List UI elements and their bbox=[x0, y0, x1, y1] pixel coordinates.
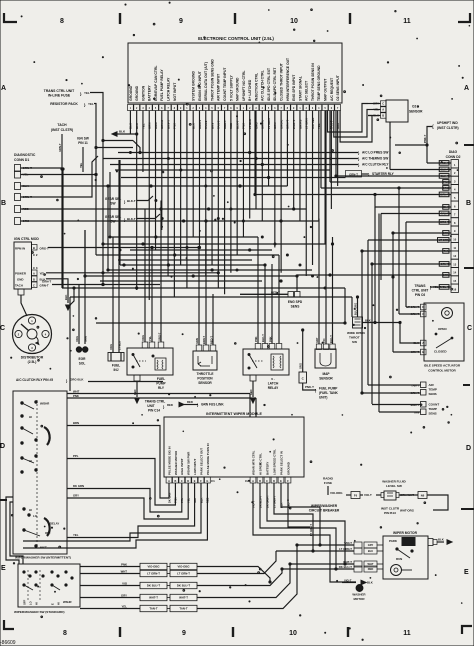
relay top pins bbox=[142, 342, 148, 348]
tps wires bbox=[198, 248, 200, 346]
svg-text:B: B bbox=[1, 200, 6, 207]
svg-text:BLK: BLK bbox=[367, 581, 373, 585]
svg-text:WHT-T: WHT-T bbox=[179, 596, 188, 600]
svg-text:PARK SELECT IN: PARK SELECT IN bbox=[279, 451, 283, 475]
svg-text:WIPER/WASHER SW (STANDARD): WIPER/WASHER SW (STANDARD) bbox=[14, 610, 64, 614]
coolant temp wires bbox=[372, 404, 421, 406]
svg-text:THROT POSIN SENS GND: THROT POSIN SENS GND bbox=[210, 59, 214, 101]
svg-text:ORG-T: ORG-T bbox=[40, 247, 50, 251]
svg-text:CLOSED: CLOSED bbox=[434, 350, 447, 354]
svg-text:B: B bbox=[422, 350, 424, 354]
relay bottom pin bbox=[134, 375, 140, 381]
relay contact bbox=[132, 354, 134, 356]
svg-text:LEVEL SW: LEVEL SW bbox=[386, 484, 402, 488]
svg-text:-86609: -86609 bbox=[0, 640, 16, 646]
svg-text:RED: RED bbox=[187, 400, 193, 404]
svg-text:C: C bbox=[266, 480, 268, 483]
svg-text:6 -: 6 - bbox=[271, 377, 275, 381]
svg-text:B: B bbox=[259, 480, 261, 483]
svg-text:AIR TEMP INPUT: AIR TEMP INPUT bbox=[217, 73, 221, 101]
svg-text:W/SHR: W/SHR bbox=[40, 402, 49, 406]
svg-text:LOW SPEED CTRL: LOW SPEED CTRL bbox=[272, 449, 276, 475]
svg-text:NOT INPUT: NOT INPUT bbox=[173, 82, 177, 101]
svg-text:DK GRN: DK GRN bbox=[73, 484, 84, 488]
svg-text:A: A bbox=[33, 272, 35, 276]
svg-text:B: B bbox=[33, 278, 35, 282]
wire drops from ECU pins bbox=[129, 111, 131, 135]
svg-text:GRN FUS LINK: GRN FUS LINK bbox=[201, 403, 224, 407]
svg-text:C: C bbox=[382, 102, 384, 106]
svg-text:GRN-T: GRN-T bbox=[40, 284, 49, 288]
jumpers between strips bbox=[167, 566, 170, 568]
svg-text:PIN B13: PIN B13 bbox=[384, 511, 396, 515]
svg-text:RED: RED bbox=[133, 389, 137, 395]
latch relay coil bbox=[271, 354, 283, 370]
svg-text:INJECTION CTRL: INJECTION CTRL bbox=[254, 73, 258, 101]
svg-text:BATTERY: BATTERY bbox=[265, 462, 269, 475]
svg-text:WSHR MTR CTRL: WSHR MTR CTRL bbox=[251, 450, 255, 475]
svg-text:D: D bbox=[466, 445, 471, 452]
svg-text:INTERMITTENT WIPER MODULE: INTERMITTENT WIPER MODULE bbox=[206, 412, 262, 416]
svg-text:A: A bbox=[252, 480, 254, 483]
svg-text:(INST CLSTR): (INST CLSTR) bbox=[437, 126, 459, 130]
actuator pins bbox=[421, 304, 427, 310]
svg-text:G: G bbox=[206, 480, 208, 483]
svg-text:PNK: PNK bbox=[254, 336, 258, 342]
svg-text:11: 11 bbox=[403, 18, 411, 25]
svg-text:THROT: THROT bbox=[349, 336, 360, 340]
svg-text:DK BLU-T: DK BLU-T bbox=[339, 565, 352, 569]
svg-text:INST CLSTR: INST CLSTR bbox=[381, 507, 400, 511]
svg-text:BLK-T: BLK-T bbox=[127, 199, 136, 203]
svg-text:TRANS: TRANS bbox=[415, 284, 426, 288]
svg-text:A: A bbox=[422, 341, 424, 345]
svg-text:TRANS CTRL UNIT: TRANS CTRL UNIT bbox=[44, 89, 75, 93]
coolant temp sensor bbox=[421, 402, 427, 408]
svg-text:FUSE: FUSE bbox=[324, 481, 332, 485]
svg-text:HI: HI bbox=[35, 602, 39, 605]
svg-text:HI: HI bbox=[29, 508, 32, 512]
fuel pump wire bbox=[303, 383, 316, 390]
svg-text:BLK: BLK bbox=[119, 130, 126, 134]
svg-text:A/C LO PRES SW: A/C LO PRES SW bbox=[362, 151, 388, 155]
inst clstr pin b13 bbox=[427, 495, 448, 510]
map pins bbox=[316, 344, 321, 350]
wide open throttle switch bbox=[353, 317, 363, 328]
svg-text:OFF: OFF bbox=[45, 531, 51, 535]
svg-text:PNK-T: PNK-T bbox=[423, 134, 427, 143]
svg-text:A/C SELECT: A/C SELECT bbox=[305, 80, 309, 101]
svg-text:RPM IN: RPM IN bbox=[15, 247, 25, 251]
top-left corner bracket bbox=[4, 13, 17, 22]
svg-text:THROT POSIN SENS IN: THROT POSIN SENS IN bbox=[311, 63, 315, 101]
outer loop wires bbox=[6, 497, 19, 564]
left edge dash bbox=[0, 499, 7, 501]
svg-text:GRN: GRN bbox=[195, 338, 199, 344]
svg-text:PIN C14: PIN C14 bbox=[148, 409, 160, 413]
svg-text:YEL: YEL bbox=[73, 533, 79, 537]
svg-text:TACH: TACH bbox=[57, 123, 67, 127]
intermittent wiper module box bbox=[164, 417, 304, 477]
svg-text:SENSOR: SENSOR bbox=[198, 381, 212, 385]
svg-text:IDLE SPD CTRL RET: IDLE SPD CTRL RET bbox=[273, 67, 277, 101]
svg-text:STARTER RLY: STARTER RLY bbox=[372, 172, 395, 176]
A/C CLUTCH RLY bbox=[110, 164, 358, 166]
svg-text:BLU: BLU bbox=[368, 549, 373, 553]
svg-text:FUEL PUMP: FUEL PUMP bbox=[319, 387, 338, 391]
svg-text:MAP GROUND: MAP GROUND bbox=[236, 77, 240, 101]
svg-text:PIN 11: PIN 11 bbox=[78, 141, 88, 145]
svg-text:C: C bbox=[33, 284, 35, 288]
svg-text:LT BLU: LT BLU bbox=[118, 341, 122, 350]
fuel pump relay box bbox=[127, 348, 173, 375]
svg-text:LOW INPUT: LOW INPUT bbox=[193, 459, 197, 475]
GRN-T inline label bbox=[346, 171, 362, 178]
ign sw wire bbox=[82, 147, 84, 172]
svg-text:IGNITION: IGNITION bbox=[141, 85, 145, 101]
wire from in-line fuse bbox=[90, 93, 103, 285]
svg-text:LT GRN-T: LT GRN-T bbox=[147, 572, 160, 576]
svg-text:LT GRN-T: LT GRN-T bbox=[309, 524, 313, 536]
svg-text:O2 SENS INPUT: O2 SENS INPUT bbox=[336, 74, 340, 101]
svg-text:E: E bbox=[1, 565, 6, 572]
svg-text:THROTTLE: THROTTLE bbox=[197, 372, 214, 376]
wire from resistor pack bbox=[94, 104, 96, 256]
svg-text:WASHER MOTOR: WASHER MOTOR bbox=[174, 450, 178, 475]
svg-text:D: D bbox=[0, 443, 5, 450]
svg-text:MOTOR: MOTOR bbox=[353, 597, 365, 601]
bottom-right corner bracket bbox=[462, 626, 472, 634]
latch relay box bbox=[243, 349, 289, 375]
svg-text:B: B bbox=[33, 246, 35, 250]
bottom-left corner bracket bbox=[4, 620, 14, 629]
svg-text:LT GRN-T: LT GRN-T bbox=[177, 572, 190, 576]
svg-text:LATCH RELAY: LATCH RELAY bbox=[166, 77, 170, 101]
svg-text:IDLE SPEED ACTUATOR: IDLE SPEED ACTUATOR bbox=[424, 364, 461, 368]
svg-text:TEMP SENS GROUND: TEMP SENS GROUND bbox=[317, 65, 321, 101]
MAP sensor box bbox=[315, 349, 336, 368]
bottom ruler ticks bbox=[119, 627, 121, 637]
svg-text:SW: SW bbox=[352, 340, 357, 344]
EGR wires bbox=[78, 285, 80, 345]
svg-text:SERIAL DATA OUT (A/T): SERIAL DATA OUT (A/T) bbox=[204, 62, 208, 101]
svg-text:BLK: BLK bbox=[64, 295, 68, 300]
svg-text:WSHR: WSHR bbox=[63, 600, 72, 604]
svg-text:ORG: ORG bbox=[141, 335, 145, 341]
svg-text:YEL: YEL bbox=[84, 91, 90, 95]
latch relay top wires bbox=[257, 237, 259, 344]
svg-text:FUEL: FUEL bbox=[157, 377, 165, 381]
svg-text:A/C CLUTCH RLY: A/C CLUTCH RLY bbox=[362, 163, 389, 167]
svg-text:O2: O2 bbox=[412, 105, 416, 109]
svg-text:VIO-T: VIO-T bbox=[344, 579, 352, 583]
bend runs below ECU left corner bbox=[103, 140, 133, 142]
svg-text:DELAY: DELAY bbox=[50, 522, 59, 526]
wht/pnk wires bbox=[67, 393, 250, 395]
svg-text:PARK: PARK bbox=[389, 539, 398, 543]
svg-text:VIO-OBG: VIO-OBG bbox=[177, 565, 189, 569]
module C1 pin boxes bbox=[166, 477, 172, 483]
svg-text:(2.5L): (2.5L) bbox=[28, 360, 37, 364]
svg-text:FUEL PUMP RELAY: FUEL PUMP RELAY bbox=[160, 69, 164, 101]
svg-text:BLK: BLK bbox=[365, 319, 371, 323]
svg-text:UPSHIFT NO CTRL: UPSHIFT NO CTRL bbox=[242, 70, 246, 101]
svg-text:UPSHIFT IND: UPSHIFT IND bbox=[437, 121, 458, 125]
svg-text:RESISTOR PACK: RESISTOR PACK bbox=[50, 102, 78, 106]
ECU pin number row bbox=[128, 105, 134, 111]
fuel inj wires bbox=[112, 237, 114, 353]
svg-text:SENSOR: SENSOR bbox=[319, 377, 333, 381]
svg-text:A/C THERMO SW: A/C THERMO SW bbox=[362, 157, 388, 161]
svg-text:B: B bbox=[382, 114, 384, 118]
distributor circle bbox=[13, 315, 52, 354]
svg-text:WIDE OPEN: WIDE OPEN bbox=[347, 331, 365, 335]
motor output stub bbox=[428, 539, 433, 546]
svg-text:DISTRIBUTOR: DISTRIBUTOR bbox=[21, 356, 44, 360]
svg-text:MAP OUTPUT: MAP OUTPUT bbox=[323, 78, 327, 101]
ign ctrl mod box bbox=[14, 242, 32, 289]
svg-text:ORG: ORG bbox=[109, 344, 113, 350]
svg-text:CLOSED THROT INPUT: CLOSED THROT INPUT bbox=[280, 62, 284, 101]
STARTER RLY bbox=[121, 177, 346, 179]
svg-text:B+ LATCHED: B+ LATCHED bbox=[248, 79, 252, 101]
svg-text:RELAY: RELAY bbox=[268, 386, 279, 390]
svg-text:RLY: RLY bbox=[158, 386, 165, 390]
svg-text:GRY: GRY bbox=[368, 543, 374, 547]
scan noise bbox=[154, 98, 155, 99]
strip output wires bbox=[197, 567, 270, 583]
svg-text:RADIO: RADIO bbox=[323, 477, 334, 481]
svg-text:D: D bbox=[273, 480, 275, 483]
svg-text:OFF: OFF bbox=[23, 599, 27, 605]
rotor arrow bbox=[36, 337, 38, 342]
svg-text:YEL: YEL bbox=[79, 162, 83, 168]
svg-text:8: 8 bbox=[60, 18, 64, 25]
svg-text:TACH: TACH bbox=[15, 284, 23, 288]
svg-text:5 VOLT SUPPLY: 5 VOLT SUPPLY bbox=[229, 74, 233, 101]
svg-text:DIAG: DIAG bbox=[449, 150, 458, 154]
svg-text:HI: HI bbox=[29, 459, 32, 463]
top-right corner bracket bbox=[458, 13, 470, 22]
svg-text:RED: RED bbox=[167, 403, 173, 407]
svg-text:GRY: GRY bbox=[315, 337, 319, 343]
std sw internal feeds bbox=[80, 568, 86, 570]
svg-text:GRN-T: GRN-T bbox=[42, 280, 51, 284]
svg-text:POSITION: POSITION bbox=[197, 377, 213, 381]
bundle horizontal runs bbox=[115, 169, 330, 171]
svg-text:WSH/W SW PWR: WSH/W SW PWR bbox=[187, 451, 191, 475]
svg-text:OPEN: OPEN bbox=[438, 327, 447, 331]
svg-text:WHT-T: WHT-T bbox=[149, 596, 158, 600]
fuel injector bbox=[108, 353, 124, 362]
BLK splice arrow bbox=[112, 132, 117, 136]
svg-text:WASHER FLUID: WASHER FLUID bbox=[382, 480, 406, 484]
tps top pins bbox=[196, 345, 202, 351]
A/C LO PRES SW bbox=[118, 152, 358, 154]
ground arrow ign mod bbox=[66, 305, 71, 310]
wiper motor box bbox=[383, 536, 428, 579]
svg-text:MAP: MAP bbox=[322, 372, 330, 376]
junction dots in bundle bbox=[129, 152, 131, 154]
svg-text:C: C bbox=[467, 325, 472, 332]
svg-text:BLK-T: BLK-T bbox=[127, 217, 136, 221]
o2 to diag wire bbox=[395, 144, 427, 146]
svg-text:VIO-OBG: VIO-OBG bbox=[147, 565, 159, 569]
svg-text:(INST CLSTR): (INST CLSTR) bbox=[51, 128, 73, 132]
svg-text:GROUND: GROUND bbox=[129, 85, 133, 101]
svg-text:A: A bbox=[382, 108, 384, 112]
svg-text:HRM INTERFERENCE OUT: HRM INTERFERENCE OUT bbox=[286, 57, 290, 101]
svg-text:C: C bbox=[422, 312, 424, 316]
svg-text:FUEL: FUEL bbox=[112, 364, 120, 368]
svg-text:PULSE MODE SIG IN: PULSE MODE SIG IN bbox=[167, 446, 171, 475]
svg-text:GROUND: GROUND bbox=[286, 462, 290, 475]
svg-text:PARK SELECT OUT: PARK SELECT OUT bbox=[199, 448, 203, 475]
radio fuse wires bbox=[327, 486, 329, 495]
svg-text:RED: RED bbox=[368, 567, 374, 571]
svg-text:LATCH: LATCH bbox=[268, 382, 279, 386]
svg-text:IGN SW: IGN SW bbox=[77, 137, 89, 141]
red drop arrows bbox=[135, 398, 140, 403]
module ground drop bbox=[288, 483, 310, 527]
connector C bbox=[299, 372, 307, 383]
actuator motor circle bbox=[442, 308, 453, 319]
svg-text:SENSOR: SENSOR bbox=[409, 110, 423, 114]
svg-text:IN-LINE FUSE: IN-LINE FUSE bbox=[48, 94, 71, 98]
relay top wires bbox=[144, 209, 146, 342]
air temp wires bbox=[368, 384, 421, 386]
svg-text:START SIGNAL: START SIGNAL bbox=[298, 76, 302, 101]
svg-text:EGR/EVAP CAN CTRL: EGR/EVAP CAN CTRL bbox=[154, 66, 158, 101]
svg-text:BATTERY: BATTERY bbox=[148, 85, 152, 101]
svg-text:A: A bbox=[464, 85, 469, 92]
connector strip left bbox=[140, 563, 167, 569]
svg-text:ORG-BLK: ORG-BLK bbox=[70, 378, 84, 382]
svg-text:TEMP: TEMP bbox=[429, 388, 437, 392]
svg-text:WIPER/WASHER: WIPER/WASHER bbox=[311, 504, 338, 508]
bundle right verticals bbox=[344, 288, 346, 323]
svg-text:B: B bbox=[174, 480, 176, 483]
svg-text:HI: HI bbox=[29, 415, 32, 419]
svg-text:GRN: GRN bbox=[84, 336, 88, 342]
map wires bbox=[318, 219, 320, 345]
svg-text:DIAGNOSTIC: DIAGNOSTIC bbox=[14, 153, 36, 157]
svg-text:TEMP: TEMP bbox=[429, 407, 437, 411]
svg-text:WHT: WHT bbox=[368, 562, 374, 566]
svg-text:CTRL UNIT: CTRL UNIT bbox=[412, 289, 429, 293]
svg-text:BLK-T: BLK-T bbox=[261, 334, 265, 342]
svg-text:ELECTRONIC CONTROL UNIT (2.5L): ELECTRONIC CONTROL UNIT (2.5L) bbox=[198, 36, 274, 41]
diag conn D1 pin boxes bbox=[15, 165, 21, 172]
svg-text:POWER: POWER bbox=[15, 272, 27, 276]
svg-text:DK BLU-T: DK BLU-T bbox=[147, 584, 160, 588]
svg-text:AIR: AIR bbox=[429, 383, 435, 387]
svg-text:A: A bbox=[168, 480, 170, 483]
wiper/washer sw standard box bbox=[18, 564, 80, 607]
svg-text:C 2: C 2 bbox=[33, 253, 38, 257]
svg-text:BLK: BLK bbox=[413, 341, 419, 345]
svg-text:11: 11 bbox=[403, 630, 411, 637]
svg-text:ORG: ORG bbox=[299, 363, 303, 369]
svg-text:WHT-T: WHT-T bbox=[343, 560, 352, 564]
svg-text:TRANS CTRL: TRANS CTRL bbox=[145, 400, 165, 404]
svg-text:C: C bbox=[181, 480, 183, 483]
svg-text:E: E bbox=[51, 603, 55, 605]
latch relay top pins bbox=[255, 344, 261, 350]
diag conn D2 pin boxes bbox=[451, 160, 459, 168]
upshift wire bbox=[427, 127, 432, 164]
svg-text:WASHER: WASHER bbox=[352, 593, 366, 597]
wiper/washer sw intermittent box bbox=[13, 391, 67, 554]
svg-text:ORG: ORG bbox=[75, 336, 79, 342]
motor connector strips bbox=[354, 542, 362, 548]
svg-text:CIRCUIT BREAKER: CIRCUIT BREAKER bbox=[309, 509, 340, 513]
svg-text:DK BLU-T: DK BLU-T bbox=[177, 584, 190, 588]
svg-text:BRN: BRN bbox=[73, 421, 79, 425]
svg-text:TAN-T: TAN-T bbox=[149, 607, 157, 611]
extra module pin wires bbox=[23, 483, 201, 541]
switch contacts mid bbox=[21, 457, 23, 459]
svg-text:10: 10 bbox=[289, 630, 297, 637]
svg-text:TAN-T: TAN-T bbox=[344, 541, 352, 545]
svg-text:CONN D1: CONN D1 bbox=[14, 158, 29, 162]
engine speed sensor bbox=[288, 292, 294, 298]
svg-text:WHT-ORG: WHT-ORG bbox=[400, 509, 415, 513]
svg-text:RUN: RUN bbox=[396, 557, 402, 561]
connector strip right bbox=[170, 563, 197, 569]
svg-text:BRN-T: BRN-T bbox=[202, 336, 206, 344]
svg-text:10: 10 bbox=[290, 18, 298, 25]
svg-text:VIO-T: VIO-T bbox=[364, 493, 372, 497]
svg-text:YEL: YEL bbox=[88, 102, 94, 106]
svg-text:ENG SPD: ENG SPD bbox=[288, 300, 303, 304]
svg-text:PUMP: PUMP bbox=[156, 382, 166, 386]
latch relay bottom pin bbox=[250, 375, 256, 381]
wot wire to actuator bbox=[363, 323, 422, 344]
O2 wires from ECU bbox=[328, 104, 369, 133]
svg-text:D: D bbox=[187, 480, 189, 483]
svg-text:VIO-ORG: VIO-ORG bbox=[330, 491, 343, 495]
svg-text:BLK: BLK bbox=[438, 538, 444, 542]
module C2 drop wires bbox=[253, 483, 356, 582]
svg-text:GND: GND bbox=[17, 278, 23, 282]
svg-text:COUNT: COUNT bbox=[429, 403, 440, 407]
motor feed horizontals bbox=[297, 544, 320, 546]
d2 wires bbox=[427, 162, 451, 164]
svg-text:SENS: SENS bbox=[429, 392, 437, 396]
svg-text:UNIT: UNIT bbox=[147, 404, 154, 408]
top ruler ticks bbox=[119, 13, 121, 24]
svg-text:A: A bbox=[1, 85, 6, 92]
svg-text:B: B bbox=[466, 200, 471, 207]
svg-text:F6: F6 bbox=[354, 494, 358, 498]
gear sel wire 2 bbox=[137, 214, 160, 219]
svg-text:PNK: PNK bbox=[73, 394, 79, 398]
stub to distributor bbox=[18, 289, 24, 295]
right edge dashes bbox=[464, 144, 474, 146]
svg-text:D: D bbox=[422, 305, 424, 309]
svg-text:ENG SPD INPUT: ENG SPD INPUT bbox=[292, 74, 296, 101]
svg-text:WHT: WHT bbox=[73, 390, 80, 394]
tach wire bbox=[61, 134, 63, 169]
svg-text:SW: SW bbox=[110, 219, 115, 223]
svg-text:EGR: EGR bbox=[79, 357, 87, 361]
svg-text:C 3: C 3 bbox=[33, 266, 38, 270]
rotor arm bbox=[21, 324, 29, 331]
relay coil bbox=[155, 358, 166, 370]
EGR solenoid bbox=[74, 344, 89, 355]
svg-text:UNIT): UNIT) bbox=[319, 396, 328, 400]
